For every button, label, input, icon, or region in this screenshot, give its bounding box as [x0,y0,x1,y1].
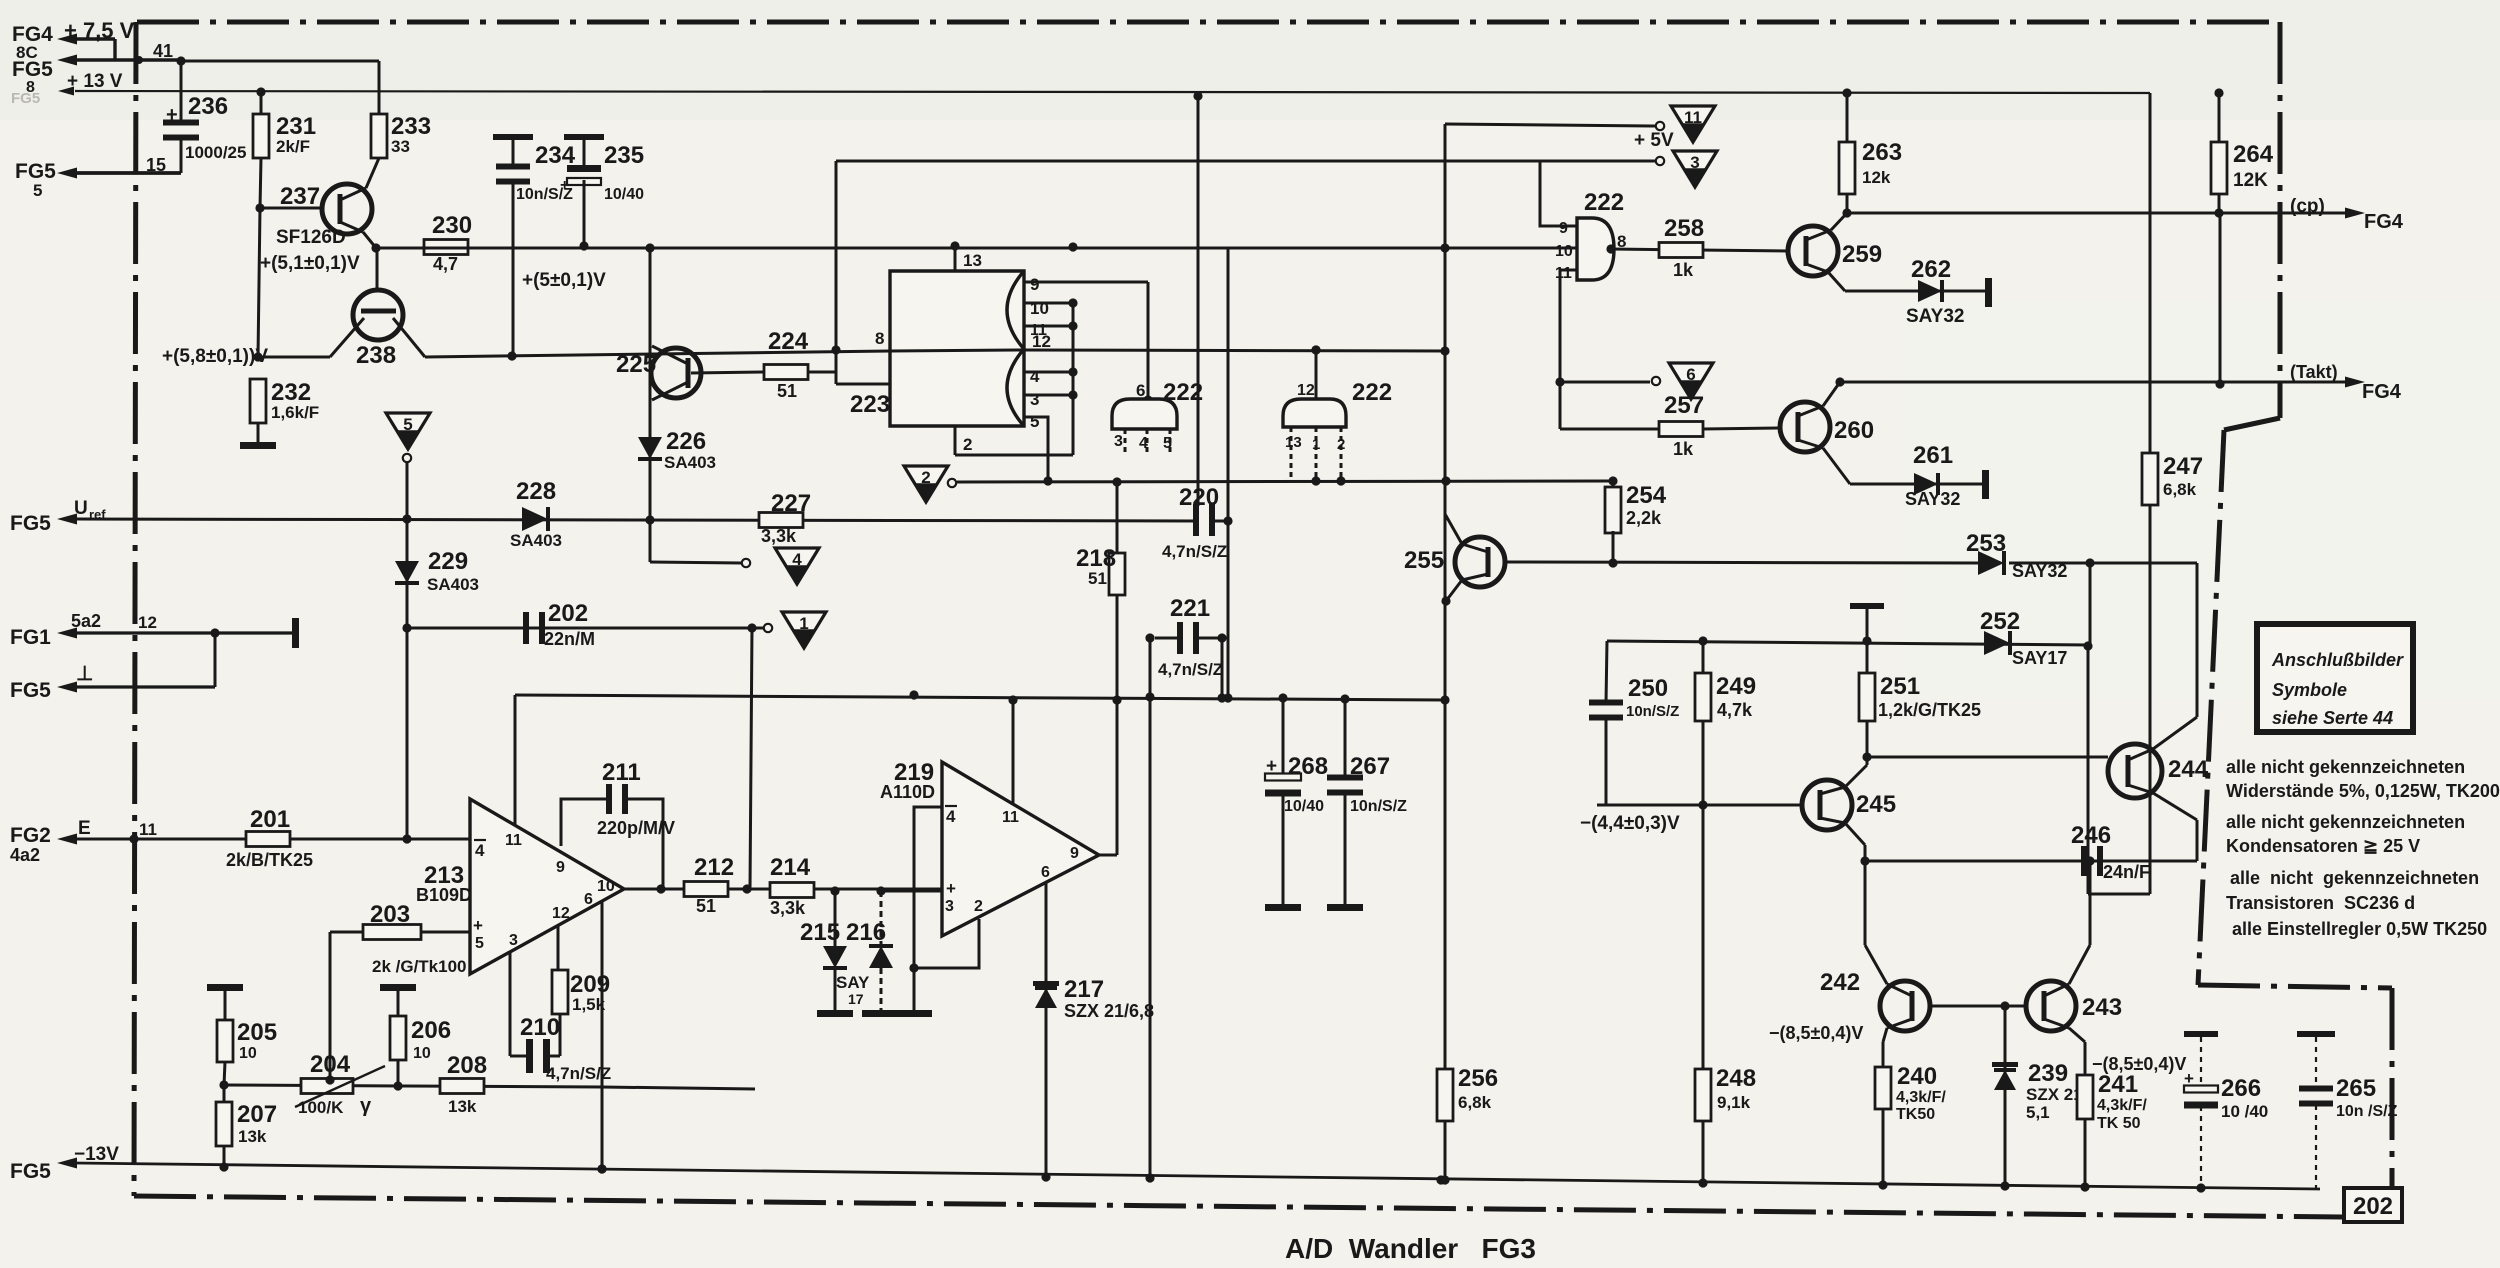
svg-text:1k: 1k [1673,260,1694,280]
svg-text:Transistoren SC236 d: Transistoren SC236 d [2226,893,2415,913]
svg-text:11: 11 [1555,265,1572,282]
svg-text:250: 250 [1628,675,1668,702]
svg-text:2k/B/TK25: 2k/B/TK25 [226,850,313,870]
svg-text:+ 5V: + 5V [1634,130,1674,151]
svg-text:224: 224 [768,328,809,355]
svg-text:226: 226 [666,428,706,455]
svg-text:10n/S/Z: 10n/S/Z [1626,703,1679,720]
svg-text:240: 240 [1897,1063,1937,1090]
svg-text:+(5,8±0,1))V: +(5,8±0,1))V [162,346,268,367]
svg-text:256: 256 [1458,1065,1498,1092]
svg-text:12: 12 [138,613,157,632]
svg-text:10: 10 [1555,243,1573,260]
svg-text:FG4: FG4 [2362,381,2402,403]
svg-text:3,3k: 3,3k [761,526,797,546]
svg-text:260: 260 [1834,417,1874,444]
svg-text:10: 10 [239,1045,257,1062]
svg-text:244: 244 [2168,756,2209,783]
svg-text:3: 3 [945,898,954,915]
svg-text:alle nicht gekennzeichneten: alle nicht gekennzeichneten [2230,868,2479,888]
svg-text:267: 267 [1350,753,1390,780]
svg-text:8: 8 [875,329,884,348]
svg-text:209: 209 [570,971,610,998]
svg-text:3: 3 [509,932,518,949]
svg-text:4a2: 4a2 [10,845,40,865]
svg-text:220p/M/V: 220p/M/V [597,818,675,838]
svg-text:4: 4 [1030,367,1040,386]
svg-text:5: 5 [1163,435,1172,452]
svg-text:261: 261 [1913,442,1953,469]
svg-text:259: 259 [1842,241,1882,268]
svg-text:3,3k: 3,3k [770,898,806,918]
svg-text:211: 211 [602,759,641,786]
svg-text:+: + [560,177,569,194]
svg-text:254: 254 [1626,482,1667,509]
svg-text:9: 9 [1070,845,1079,862]
svg-text:51: 51 [777,381,797,401]
svg-text:Widerstände 5%, 0,125W, TK200: Widerstände 5%, 0,125W, TK200 [2226,781,2500,801]
svg-text:238: 238 [356,342,396,369]
svg-text:+(5,1±0,1)V: +(5,1±0,1)V [260,253,360,274]
svg-text:217: 217 [1064,976,1104,1003]
svg-text:6,8k: 6,8k [1458,1093,1492,1112]
svg-text:10/40: 10/40 [604,186,644,203]
svg-text:6: 6 [1136,381,1145,400]
svg-text:5: 5 [475,935,484,952]
svg-text:204: 204 [310,1051,351,1078]
svg-text:4: 4 [946,807,956,826]
svg-text:SA403: SA403 [510,531,562,550]
svg-text:13: 13 [1285,434,1302,451]
svg-text:233: 233 [391,113,431,140]
svg-text:siehe Serte 44: siehe Serte 44 [2272,708,2393,728]
svg-text:2k /G/Tk100: 2k /G/Tk100 [372,957,467,976]
svg-text:2: 2 [921,468,930,487]
svg-text:264: 264 [2233,141,2274,168]
svg-text:268: 268 [1288,753,1328,780]
svg-text:12K: 12K [2233,170,2268,191]
svg-text:4,7n/S/Z: 4,7n/S/Z [1158,660,1223,679]
svg-text:+: + [473,916,483,935]
svg-text:203: 203 [370,901,410,928]
svg-text:FG5: FG5 [12,58,53,81]
svg-text:265: 265 [2336,1075,2376,1102]
svg-text:247: 247 [2163,453,2203,480]
svg-text:5: 5 [403,415,412,434]
svg-text:210: 210 [520,1014,560,1041]
svg-text:11: 11 [139,820,157,839]
svg-text:9,1k: 9,1k [1717,1093,1751,1112]
svg-text:262: 262 [1911,256,1951,283]
svg-text:257: 257 [1664,392,1704,419]
svg-text:2k/F: 2k/F [276,137,310,156]
svg-text:SA403: SA403 [664,453,716,472]
svg-text:(cp): (cp) [2290,196,2325,217]
svg-text:2,2k: 2,2k [1626,508,1662,528]
svg-text:248: 248 [1716,1065,1756,1092]
svg-text:FG5: FG5 [10,512,51,535]
svg-text:12: 12 [1032,332,1051,351]
svg-text:5: 5 [1030,412,1039,431]
svg-text:6: 6 [584,891,593,908]
svg-text:258: 258 [1664,215,1704,242]
svg-text:1: 1 [799,614,808,633]
svg-text:216: 216 [846,919,886,946]
svg-text:FG5: FG5 [15,160,56,183]
svg-text:FG5: FG5 [11,90,40,107]
svg-text:33: 33 [391,137,410,156]
svg-text:6: 6 [1686,365,1695,384]
svg-text:alle nicht gekennzeichneten: alle nicht gekennzeichneten [2226,757,2465,777]
svg-text:10 /40: 10 /40 [2221,1102,2268,1121]
svg-text:5,1: 5,1 [2026,1103,2050,1122]
svg-text:B109D: B109D [416,885,472,905]
svg-text:51: 51 [696,896,716,916]
svg-text:+ 13 V: + 13 V [67,71,123,92]
svg-text:SF126D: SF126D [276,227,346,248]
svg-text:230: 230 [432,212,472,239]
svg-text:Anschlußbilder: Anschlußbilder [2271,650,2404,670]
svg-text:alle Einstellregler 0,5W TK250: alle Einstellregler 0,5W TK250 [2232,919,2487,939]
svg-text:245: 245 [1856,791,1896,818]
svg-text:−(8,5±0,4)V: −(8,5±0,4)V [1769,1023,1863,1043]
svg-text:11: 11 [505,832,522,849]
svg-text:FG5: FG5 [10,679,51,702]
svg-text:⊥: ⊥ [76,663,93,685]
svg-text:205: 205 [237,1019,277,1046]
svg-text:263: 263 [1862,139,1902,166]
svg-text:239: 239 [2028,1060,2068,1087]
svg-text:212: 212 [694,854,734,881]
svg-text:218: 218 [1076,545,1116,572]
svg-text:4: 4 [1139,435,1148,452]
svg-text:227: 227 [771,490,811,517]
svg-text:6,8k: 6,8k [2163,480,2197,499]
svg-text:5: 5 [33,181,42,200]
svg-text:234: 234 [535,142,576,169]
svg-text:3: 3 [1690,153,1699,172]
svg-text:γ: γ [360,1095,372,1117]
svg-text:222: 222 [1352,379,1392,406]
svg-text:Kondensatoren ≧ 25 V: Kondensatoren ≧ 25 V [2226,836,2420,856]
svg-text:15: 15 [146,155,166,175]
svg-text:229: 229 [428,548,468,575]
svg-text:Symbole: Symbole [2272,680,2347,700]
svg-text:4,7: 4,7 [433,254,458,274]
svg-text:12: 12 [552,905,570,922]
svg-text:11: 11 [1002,809,1019,826]
svg-text:1k: 1k [1673,439,1694,459]
svg-text:11: 11 [1684,108,1702,127]
svg-text:2: 2 [963,435,972,454]
svg-text:(Takt): (Takt) [2290,362,2338,382]
svg-text:1: 1 [1312,436,1320,453]
svg-text:FG1: FG1 [10,626,51,649]
svg-text:17: 17 [848,991,864,1007]
svg-text:SZX 21/6,8: SZX 21/6,8 [1064,1001,1154,1021]
svg-text:207: 207 [237,1101,277,1128]
svg-text:232: 232 [271,379,311,406]
svg-text:255: 255 [1404,547,1444,574]
svg-text:13k: 13k [238,1127,267,1146]
svg-text:208: 208 [447,1052,487,1079]
svg-text:3: 3 [1030,390,1039,409]
svg-text:E: E [78,818,91,839]
svg-text:SAY32: SAY32 [1905,489,1960,509]
svg-text:3: 3 [1114,433,1123,450]
svg-text:202: 202 [2353,1193,2393,1220]
svg-text:2: 2 [1337,436,1345,453]
svg-text:243: 243 [2082,994,2122,1021]
svg-text:+: + [166,104,178,126]
svg-text:12k: 12k [1862,168,1891,187]
svg-text:A/D Wandler FG3: A/D Wandler FG3 [1285,1233,1536,1264]
svg-text:41: 41 [153,41,173,61]
svg-text:237: 237 [280,183,320,210]
svg-text:4,3k/F/: 4,3k/F/ [1896,1089,1946,1106]
svg-text:13k: 13k [448,1097,477,1116]
svg-text:235: 235 [604,142,644,169]
svg-text:214: 214 [770,854,811,881]
svg-text:10n/S/Z: 10n/S/Z [1350,798,1407,815]
svg-text:A110D: A110D [880,782,935,802]
svg-text:4,3k/F/: 4,3k/F/ [2097,1097,2147,1114]
svg-text:4: 4 [475,841,485,860]
svg-text:FG2: FG2 [10,824,51,847]
svg-text:51: 51 [1088,569,1107,588]
svg-text:1,2k/G/TK25: 1,2k/G/TK25 [1878,700,1981,720]
svg-text:4,7n/S/Z: 4,7n/S/Z [1162,542,1227,561]
svg-text:253: 253 [1966,530,2006,557]
svg-text:alle nicht gekennzeichneten: alle nicht gekennzeichneten [2226,812,2465,832]
svg-text:10n /S/Z: 10n /S/Z [2336,1103,2398,1120]
svg-text:206: 206 [411,1017,451,1044]
svg-text:SAY32: SAY32 [1906,306,1964,327]
svg-text:13: 13 [963,251,982,270]
svg-text:10: 10 [597,878,615,895]
svg-text:242: 242 [1820,969,1860,996]
svg-text:FG5: FG5 [10,1160,51,1183]
svg-text:−(4,4±0,3)V: −(4,4±0,3)V [1580,813,1680,834]
svg-text:202: 202 [548,600,588,627]
svg-text:10/40: 10/40 [1284,798,1324,815]
svg-text:4,7k: 4,7k [1717,700,1753,720]
svg-text:223: 223 [850,391,890,418]
svg-text:TK 50: TK 50 [2097,1115,2141,1132]
svg-text:10: 10 [413,1045,431,1062]
svg-text:FG4: FG4 [2364,211,2404,233]
svg-text:SAY17: SAY17 [2012,648,2067,668]
svg-text:9: 9 [1559,220,1568,237]
svg-text:12: 12 [1297,382,1315,399]
svg-text:4: 4 [792,550,802,569]
svg-text:1,6k/F: 1,6k/F [271,403,319,422]
svg-text:2: 2 [974,898,983,915]
svg-text:100/K: 100/K [298,1098,344,1117]
svg-text:9: 9 [1030,275,1039,294]
svg-text:225: 225 [616,351,656,378]
svg-text:220: 220 [1179,484,1219,511]
svg-text:9: 9 [556,859,565,876]
svg-text:SA403: SA403 [427,575,479,594]
svg-text:24n/F: 24n/F [2103,862,2150,882]
svg-text:6: 6 [1041,864,1050,881]
svg-text:201: 201 [250,806,290,833]
svg-text:221: 221 [1170,595,1210,622]
svg-text:22n/M: 22n/M [544,629,595,649]
svg-text:+(5±0,1)V: +(5±0,1)V [522,270,606,291]
svg-text:TK50: TK50 [1896,1106,1935,1123]
svg-text:252: 252 [1980,608,2020,635]
svg-text:+: + [946,879,956,898]
svg-text:SAY: SAY [836,973,870,992]
svg-text:249: 249 [1716,673,1756,700]
svg-text:241: 241 [2098,1071,2138,1098]
svg-text:231: 231 [276,113,316,140]
svg-text:215: 215 [800,919,840,946]
svg-text:236: 236 [188,93,228,120]
svg-text:266: 266 [2221,1075,2261,1102]
svg-text:228: 228 [516,478,556,505]
svg-text:246: 246 [2071,822,2111,849]
svg-text:1000/25: 1000/25 [185,143,246,162]
svg-text:251: 251 [1880,673,1920,700]
svg-text:222: 222 [1584,189,1624,216]
